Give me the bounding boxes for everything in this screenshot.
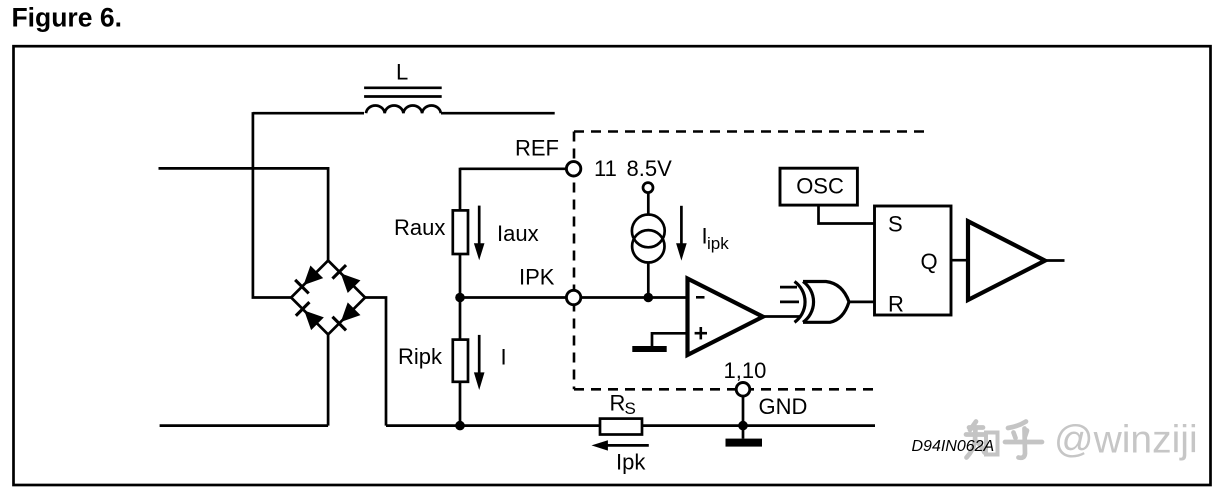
svg-text:I: I [501, 345, 507, 370]
svg-text:REF: REF [515, 135, 559, 160]
svg-text:R: R [610, 391, 626, 416]
svg-text:Ipk: Ipk [616, 450, 646, 475]
svg-text:Figure 6.: Figure 6. [12, 3, 122, 33]
svg-text:OSC: OSC [796, 174, 844, 199]
svg-text:8.5V: 8.5V [627, 156, 673, 181]
svg-text:Q: Q [921, 249, 938, 274]
svg-text:D94IN062A: D94IN062A [912, 438, 995, 455]
svg-text:ipk: ipk [707, 234, 729, 253]
svg-text:Raux: Raux [394, 215, 445, 240]
svg-text:S: S [888, 212, 903, 237]
svg-text:@winziji: @winziji [1054, 419, 1198, 462]
svg-text:Ripk: Ripk [398, 344, 443, 369]
svg-text:GND: GND [759, 394, 808, 419]
svg-text:Iaux: Iaux [497, 221, 539, 246]
svg-text:11: 11 [594, 156, 617, 181]
svg-text:R: R [888, 292, 904, 317]
svg-text:L: L [396, 60, 408, 85]
svg-text:1,10: 1,10 [724, 358, 767, 383]
svg-text:S: S [625, 399, 636, 418]
svg-text:IPK: IPK [519, 265, 555, 290]
